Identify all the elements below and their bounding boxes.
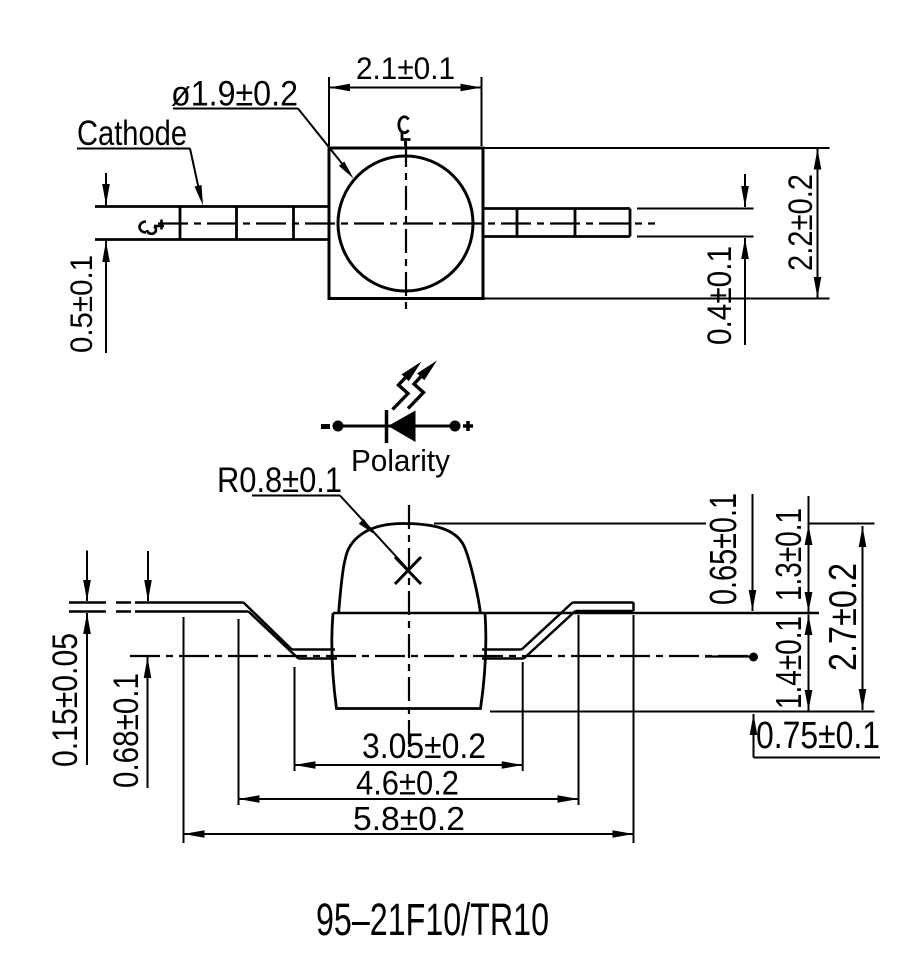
right lead (anode) top view <box>485 209 631 237</box>
dimension 4.6±0.2 <box>239 798 579 800</box>
diode cathode bar <box>385 410 389 443</box>
svg-text:95–21F10/TR10: 95–21F10/TR10 <box>316 894 549 945</box>
dimension 0.4±0.1 (right lead width) <box>744 174 746 345</box>
dome top extension line <box>434 523 706 525</box>
svg-text:0.75±0.1: 0.75±0.1 <box>756 715 880 757</box>
dimension 1.4±0.1 <box>808 615 810 711</box>
svg-text:1.3±0.1: 1.3±0.1 <box>768 508 809 601</box>
svg-text:0.68±0.1: 0.68±0.1 <box>106 673 146 788</box>
svg-text:2.7±0.2: 2.7±0.2 <box>822 563 865 671</box>
body top line extended right <box>333 612 819 614</box>
svg-text:Cathode: Cathode <box>77 113 187 153</box>
lens circle (top view) <box>338 156 473 291</box>
horizontal centerline (top view) <box>158 222 655 224</box>
bottom dimension extension lines <box>184 615 634 843</box>
dimension 0.15±0.05 (lead thickness) <box>86 551 88 766</box>
dimension 2.2±0.2 <box>483 148 830 299</box>
LED package body (top view square) <box>329 148 483 299</box>
right terminal dot and plus <box>450 421 461 432</box>
dimension 0.65±0.1 <box>752 494 754 611</box>
polarity wire <box>340 425 458 428</box>
cathode polarity mark on left lead <box>140 220 164 234</box>
dimension 1.3±0.1 <box>808 496 810 612</box>
left terminal dot and minus <box>333 421 344 432</box>
emission arrow 1 <box>393 362 422 410</box>
vertical centerline (top view) <box>405 143 407 311</box>
dimension 2.1±0.1 <box>329 77 482 146</box>
bottom reference plane line <box>490 711 875 713</box>
svg-text:R0.8±0.1: R0.8±0.1 <box>217 460 342 500</box>
X marker (radius center) <box>395 557 421 584</box>
extension lines for 0.4 dim (right lead) <box>637 209 754 237</box>
svg-text:0.5±0.1: 0.5±0.1 <box>63 255 99 353</box>
centre-line symbol above square <box>399 117 411 146</box>
dimension 5.8±0.2 <box>184 833 634 835</box>
right gull-wing lead <box>482 603 634 659</box>
dimension 2.7±0.2 <box>862 526 864 710</box>
svg-text:4.6±0.2: 4.6±0.2 <box>356 765 459 803</box>
body sides and bottom (side view) <box>332 613 486 709</box>
dimension 0.75±0.1 <box>753 714 755 758</box>
svg-text:0.65±0.1: 0.65±0.1 <box>703 493 745 605</box>
svg-text:1.4±0.1: 1.4±0.1 <box>768 616 809 709</box>
svg-text:Polarity: Polarity <box>351 443 450 478</box>
diode triangle <box>388 411 416 443</box>
left lead phantom stub <box>69 603 131 612</box>
svg-text:0.4±0.1: 0.4±0.1 <box>701 246 739 345</box>
side view horizontal centerline with end dot <box>130 655 749 657</box>
epoxy dome (side view) <box>339 524 481 613</box>
left gull-wing lead <box>135 603 337 659</box>
left lead (cathode) top view <box>95 207 329 240</box>
dimension 3.05±0.2 <box>295 764 523 766</box>
svg-text:3.05±0.2: 3.05±0.2 <box>362 726 486 766</box>
side view vertical centerline <box>408 505 410 757</box>
dimension 0.68±0.1 (lead top to seating) <box>147 551 150 788</box>
svg-text:2.1±0.1: 2.1±0.1 <box>356 50 455 86</box>
dimension 0.5±0.1 (left lead width) <box>105 173 107 353</box>
svg-text:0.15±0.05: 0.15±0.05 <box>46 633 85 767</box>
svg-text:5.8±0.2: 5.8±0.2 <box>353 800 465 837</box>
emission arrow 2 <box>408 361 437 409</box>
svg-text:2.2±0.2: 2.2±0.2 <box>782 174 820 271</box>
